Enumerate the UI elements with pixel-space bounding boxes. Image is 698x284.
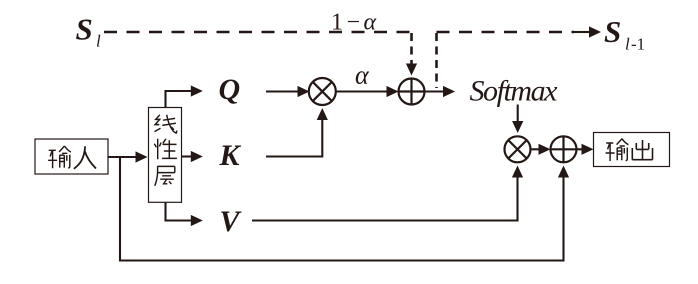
svg-text:Softmax: Softmax [470, 74, 559, 107]
svg-text:S: S [76, 12, 93, 47]
svg-text:l: l [96, 32, 101, 51]
svg-text:K: K [219, 139, 242, 172]
svg-text:V: V [220, 205, 243, 238]
svg-text:S: S [604, 14, 621, 49]
svg-text:-1: -1 [631, 35, 645, 54]
svg-text:l: l [625, 35, 630, 54]
svg-text:1−α: 1−α [331, 10, 380, 36]
svg-text:Q: Q [219, 73, 241, 106]
svg-text:α: α [355, 61, 370, 90]
